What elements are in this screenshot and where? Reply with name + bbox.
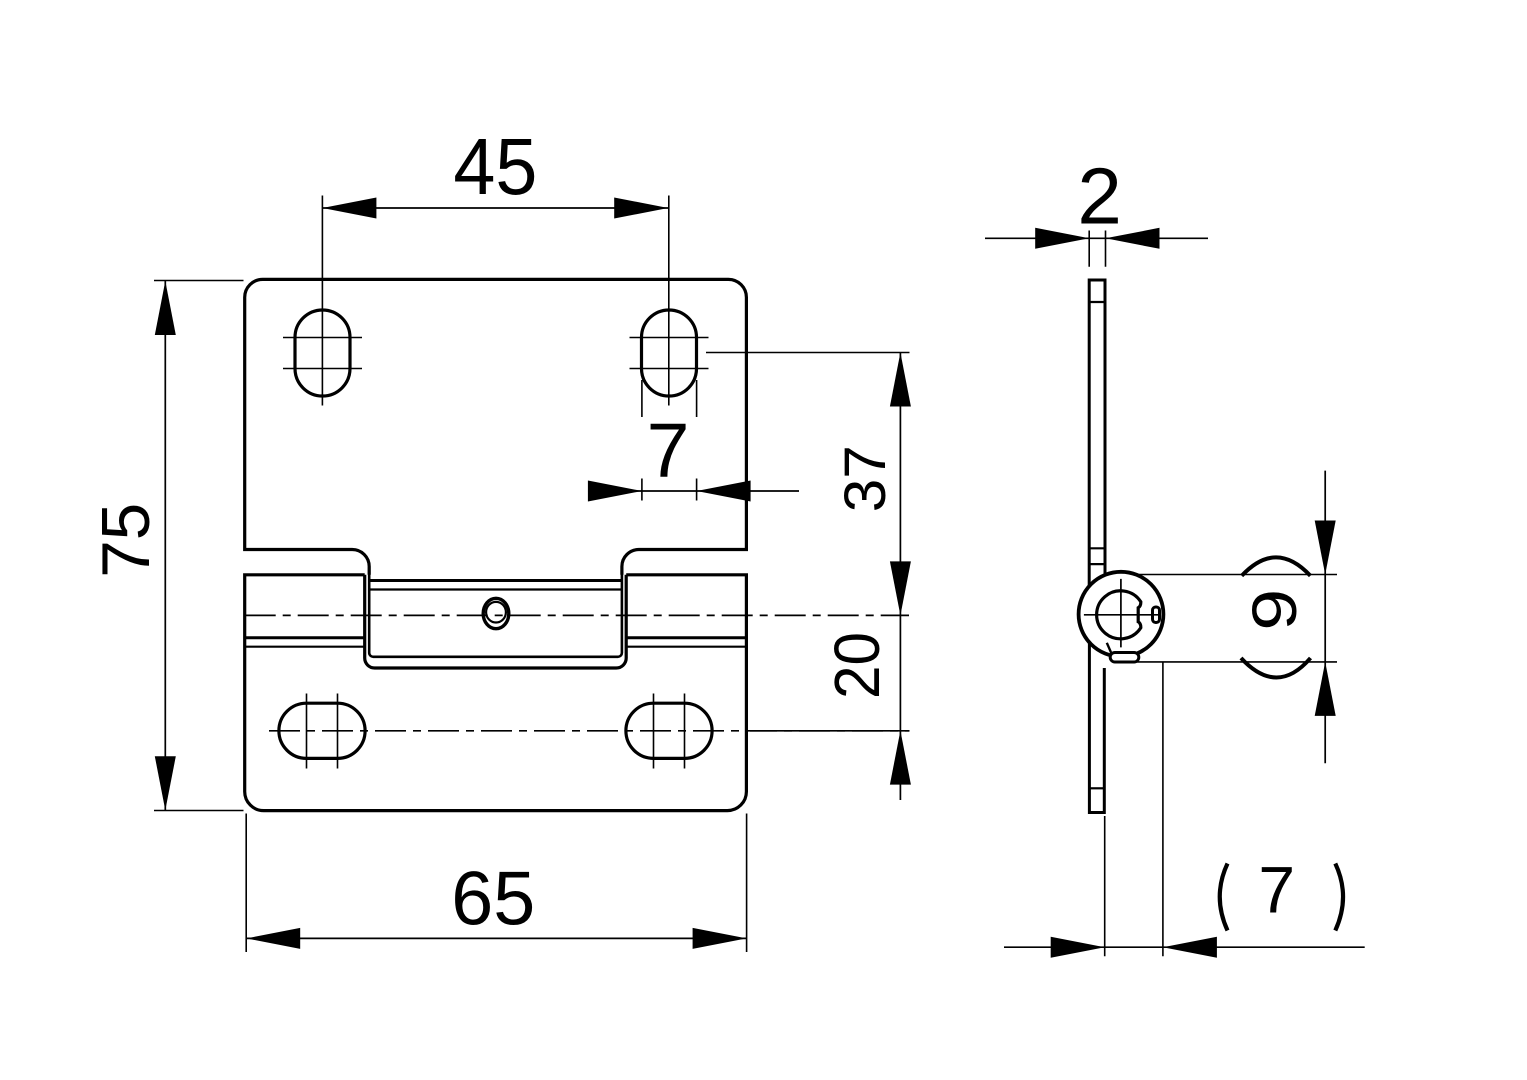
knuckle curl tangent lines on lower leaf: [245, 638, 747, 647]
slot bottom-left centerlines: [307, 694, 338, 769]
svg-text:65: 65: [451, 857, 535, 942]
svg-text:75: 75: [88, 503, 164, 578]
slot top-right centerlines: [630, 196, 709, 406]
dimension 7 slot width line: [588, 380, 799, 502]
slot bottom-right centerlines: [654, 694, 685, 769]
dimension 9 parentheses: [1241, 557, 1311, 677]
side view upper strip bend marks: [1089, 302, 1105, 564]
side view knuckle crosshair: [1084, 579, 1158, 648]
dimension 75 line: [154, 281, 244, 811]
slot top-left centerlines: [283, 196, 362, 406]
dimension (7) line: [1004, 662, 1365, 958]
svg-text:45: 45: [453, 122, 537, 211]
svg-text:7: 7: [647, 408, 690, 494]
lower leaf plate outline: [245, 575, 747, 811]
slot top-left: [295, 310, 350, 396]
svg-text:20: 20: [821, 632, 893, 699]
slot top-right: [642, 310, 697, 396]
side view pin bore with clip notch: [1097, 591, 1141, 639]
svg-text:7: 7: [1258, 853, 1295, 927]
upper leaf plate outline: [245, 279, 747, 581]
slot bottom-right: [626, 703, 712, 758]
lower slots common centerline: [269, 730, 909, 732]
dimension 45 line: [322, 198, 668, 219]
dimension 65 line: [246, 814, 746, 953]
svg-text:2: 2: [1077, 152, 1122, 241]
central curled tab outer outline: [365, 575, 627, 668]
side view pin keeper tab: [1153, 607, 1160, 623]
side view curl end flap: [1107, 643, 1113, 656]
side view knuckle outer circle: [1079, 572, 1164, 657]
side view lower leaf strip: [1089, 643, 1104, 813]
dimension 2 line: [985, 228, 1208, 267]
svg-text:9: 9: [1240, 589, 1310, 631]
dimension 9 line: [1136, 471, 1337, 764]
side view upper leaf strip: [1089, 280, 1105, 586]
hinge pin end front view: [483, 598, 509, 628]
central curled tab inner outline: [369, 567, 622, 657]
dimension 37 line: [706, 353, 911, 616]
svg-text:37: 37: [833, 445, 898, 512]
tab curl tangent lines: [369, 581, 622, 590]
side view lower strip bend mark: [1089, 787, 1104, 789]
dimension 20 line: [750, 615, 911, 800]
dimension (7) text: [1220, 853, 1343, 931]
slot bottom-left: [279, 703, 365, 758]
main hinge axis centerline: [245, 614, 909, 616]
